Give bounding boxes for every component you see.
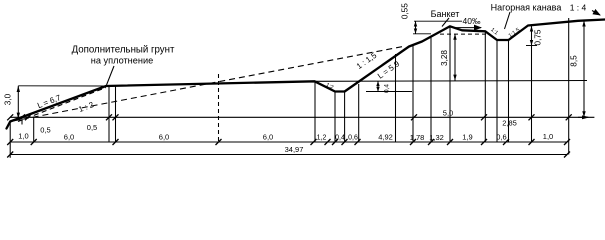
- svg-text:34,97: 34,97: [285, 145, 304, 154]
- svg-text:0,4: 0,4: [384, 84, 391, 93]
- extension line x=568.7 (right end of chain): [568, 18, 570, 155]
- svg-text:4,92: 4,92: [378, 133, 393, 142]
- extension line x=33.7: [33, 117, 35, 142]
- ground profile thick line: [7, 20, 605, 129]
- extension line x=335 (ditch bottom left): [334, 92, 336, 143]
- svg-text:0,4: 0,4: [335, 135, 345, 142]
- dim 0,75 ditch depth: [526, 45, 537, 47]
- svg-text:0,5: 0,5: [87, 123, 97, 132]
- svg-text:0,6: 0,6: [348, 135, 358, 142]
- dim 3,28 vertical: [454, 34, 456, 81]
- svg-text:Банкет: Банкет: [431, 9, 460, 19]
- svg-text:Дополнительный грунт: Дополнительный грунт: [72, 45, 175, 56]
- svg-text:1,32: 1,32: [429, 133, 444, 142]
- extension line x=497 (upland ditch bottom left): [496, 40, 498, 142]
- svg-text:6,0: 6,0: [159, 133, 169, 142]
- row A end arrow: [578, 116, 588, 118]
- natural ground datum line (thin, under cut slope to right edge): [315, 80, 587, 83]
- svg-text:3,0: 3,0: [4, 93, 13, 105]
- svg-text:1,9: 1,9: [462, 132, 472, 141]
- svg-text:40‰: 40‰: [463, 16, 481, 26]
- row B ticks: [7, 139, 570, 145]
- extension line x=485.3 (upland ditch left brow): [484, 31, 486, 142]
- extension line x=344.6 (ditch bottom right): [344, 92, 346, 143]
- extension line x=395.5: [395, 54, 397, 142]
- dimension row C line (total 34,97): [10, 154, 567, 156]
- dimension row B line (main chain): [10, 141, 567, 143]
- extension line x=315 (ditch left brow): [314, 81, 316, 142]
- axis dashed vertical at 6,0|6,0 boundary: [218, 74, 220, 142]
- svg-text:1,0: 1,0: [543, 132, 553, 141]
- dim 8,5 vertical right: [583, 21, 585, 118]
- svg-text:0,55: 0,55: [401, 3, 410, 19]
- svg-text:0,75: 0,75: [534, 29, 543, 45]
- extension line x=109 (berm edge): [108, 86, 110, 142]
- extension line x=413 (slope crest): [412, 45, 414, 143]
- svg-text:1,2: 1,2: [317, 135, 327, 142]
- extension line x=115.5: [115, 86, 117, 142]
- svg-text:3,28: 3,28: [440, 50, 449, 66]
- svg-text:Нагорная канава: Нагорная канава: [491, 3, 562, 13]
- svg-text:6,0: 6,0: [263, 133, 273, 142]
- svg-text:0,6: 0,6: [496, 133, 506, 142]
- svg-text:1 : 4: 1 : 4: [570, 3, 587, 13]
- svg-text:2,85: 2,85: [502, 119, 517, 128]
- extension line x=22: [21, 117, 23, 125]
- ditch bottom reference line: [366, 91, 412, 93]
- dim 3,0 left vertical: [18, 85, 106, 87]
- svg-text:6,0: 6,0: [64, 133, 74, 142]
- svg-text:на уплотнение: на уплотнение: [91, 56, 153, 66]
- svg-text:8,5: 8,5: [570, 55, 579, 67]
- extension line x=358.7: [358, 84, 360, 142]
- dashed natural ground line (long): [13, 47, 403, 122]
- extension line x=431: [430, 36, 432, 142]
- extension line at embankment toe x=10: [9, 122, 11, 158]
- berm base dashed: [440, 33, 486, 35]
- svg-text:0,5: 0,5: [40, 126, 50, 135]
- svg-text:5,0: 5,0: [443, 109, 453, 118]
- svg-text:1,0: 1,0: [18, 132, 28, 141]
- mini dim ticks left (1,0 / 0,5): [7, 114, 31, 120]
- dashed 1:2 slope line (short, left): [18, 88, 106, 122]
- dim 0,55 berm height: [414, 20, 462, 22]
- row A ticks: [106, 114, 572, 120]
- leader to slope bend: [107, 66, 115, 85]
- dim 0,4 vertical mini dim near slope toe: [377, 81, 379, 91]
- dimension row A line: [10, 116, 594, 118]
- svg-text:1,78: 1,78: [410, 133, 425, 142]
- extension line x=531.5 (upland ditch right brow): [531, 46, 533, 143]
- extension line x=508.5 (upland ditch bottom right): [508, 40, 510, 142]
- extension line x=450 (berm peak): [449, 26, 451, 142]
